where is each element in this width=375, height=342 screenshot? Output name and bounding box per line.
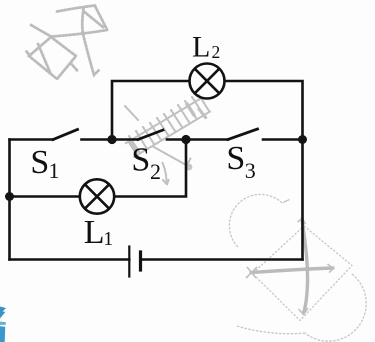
svg-text:1: 1: [49, 158, 60, 183]
svg-text:2: 2: [212, 42, 221, 62]
svg-text:L: L: [192, 31, 210, 64]
svg-text:3: 3: [245, 158, 256, 183]
svg-text:S: S: [131, 142, 150, 179]
svg-text:L: L: [84, 214, 105, 251]
svg-text:1: 1: [103, 228, 113, 250]
svg-text:S: S: [226, 140, 245, 177]
svg-text:S: S: [30, 144, 49, 181]
svg-text:2: 2: [150, 159, 161, 184]
